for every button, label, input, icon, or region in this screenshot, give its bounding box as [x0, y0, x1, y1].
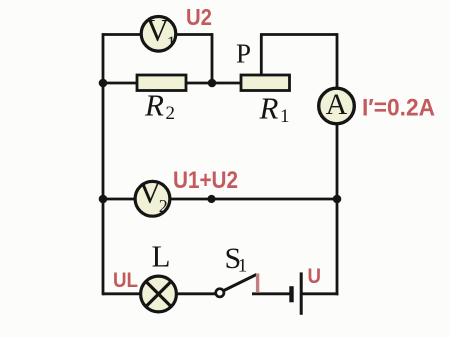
svg-text:R: R [259, 91, 279, 126]
svg-text:U: U [308, 264, 322, 288]
resistor R2 [137, 75, 186, 91]
svg-text:I′=0.2A: I′=0.2A [362, 95, 435, 122]
label S1 [225, 242, 248, 277]
resistor R1 (rheostat body) [241, 75, 290, 91]
wire: bottom from battery long plate to right rail [301, 292, 338, 295]
wire: V1 right to corner [176, 33, 212, 36]
wire: top-left horizontal from left rail to V1 [103, 33, 141, 36]
svg-text:1: 1 [238, 256, 248, 277]
ammeter A [319, 88, 355, 124]
wire: slider P vertical to R1 [260, 35, 263, 77]
lamp L [141, 276, 177, 312]
svg-text:UL: UL [113, 269, 138, 292]
wire: left vertical rail [102, 33, 105, 295]
label R2 [144, 88, 175, 125]
svg-text:U1+U2: U1+U2 [173, 167, 238, 194]
node: left V2 junction [99, 195, 108, 204]
svg-text:P: P [236, 39, 251, 69]
switch S1 pivot [216, 289, 224, 297]
svg-text:R: R [144, 88, 164, 123]
wire: V2 row horizontal [103, 198, 337, 201]
node: V2 row mid junction [207, 195, 215, 203]
switch S1 blade [224, 274, 257, 290]
node: right V2 junction [333, 195, 342, 204]
label R1 [259, 91, 290, 128]
wire: vertical from V1 corner down to R2 node [211, 33, 214, 83]
svg-text:U2: U2 [186, 4, 212, 30]
svg-text:1: 1 [280, 106, 290, 127]
svg-text:A: A [326, 88, 348, 121]
wire: bottom left horizontal to switch pivot [103, 292, 217, 295]
node: right R2 junction [208, 79, 217, 88]
svg-text:2: 2 [166, 103, 176, 124]
voltmeter V2 [135, 174, 170, 216]
battery long plate [300, 272, 303, 314]
svg-text:L: L [152, 239, 171, 274]
wire: slider top horizontal to right rail [260, 33, 337, 36]
switch closed-position mark (red) [256, 274, 259, 293]
wire: R2 row horizontal from left rail through R2 to R1 [103, 82, 241, 85]
node: left R2 junction [99, 79, 108, 88]
wire: right vertical rail through ammeter [336, 33, 339, 295]
wire: bottom from switch to battery short plate [252, 292, 292, 295]
voltmeter V1 [141, 12, 176, 53]
battery short plate [289, 286, 293, 302]
